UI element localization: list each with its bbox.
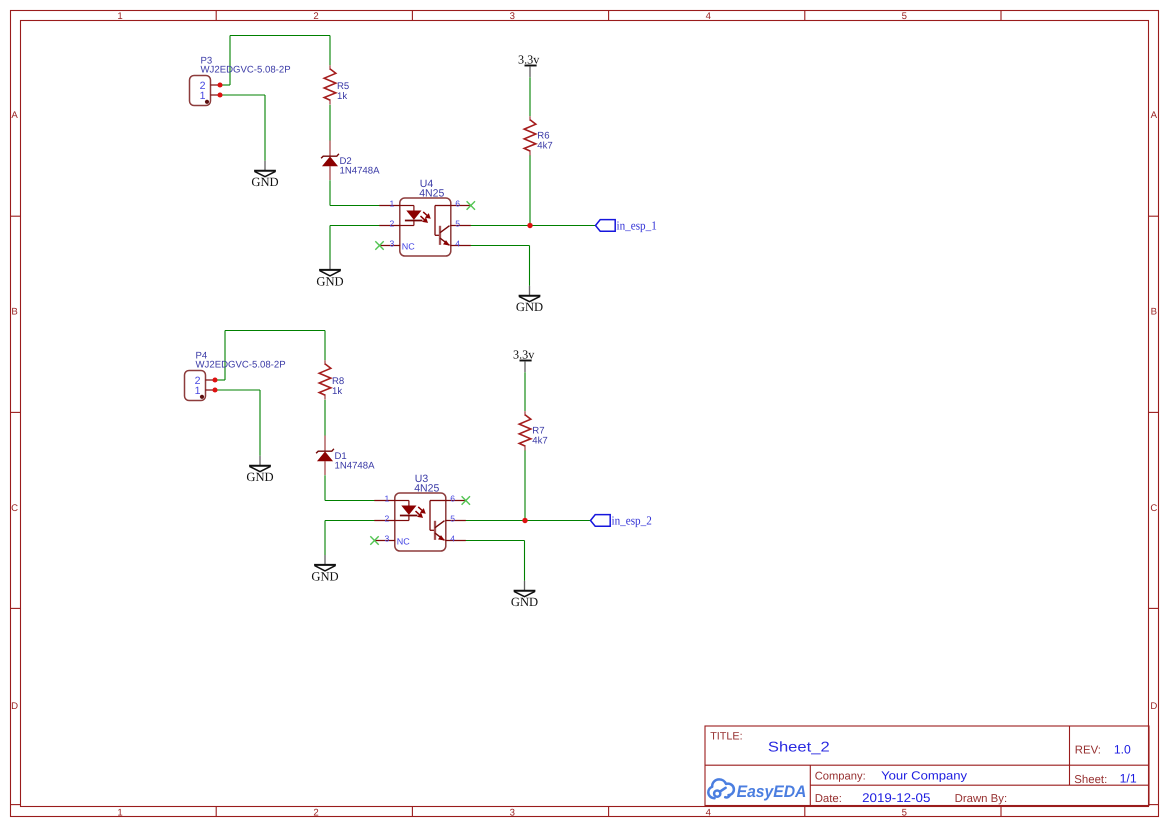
wire [329,36,331,66]
svg-text:GND: GND [246,470,273,484]
svg-text:Drawn By:: Drawn By: [955,793,1008,805]
svg-text:1N4748A: 1N4748A [335,461,376,472]
svg-text:1k: 1k [337,91,347,102]
svg-text:5: 5 [450,514,455,524]
P3 pin 1 [211,94,221,96]
wire [524,450,526,521]
wire [330,205,380,207]
ground (U4 pin 2) [316,260,343,288]
svg-text:4k7: 4k7 [537,140,552,151]
P3 pin-1 marker dot [205,100,209,104]
wire [471,245,530,247]
svg-text:GND: GND [316,274,343,288]
wire [466,540,525,542]
U4 pin 4 [450,245,471,247]
U3 pin 3 (NC) [374,540,395,542]
wire [325,520,375,522]
svg-text:TITLE:: TITLE: [710,730,742,742]
svg-text:1: 1 [385,494,390,504]
wire [220,94,265,96]
ground (P3 pin 1) [251,161,278,189]
svg-text:4: 4 [706,11,712,22]
wire [524,541,526,581]
U3 phototransistor [430,501,445,541]
P4 pin 1 [206,389,216,391]
optocoupler U3 (4N25) [374,473,466,551]
svg-text:3.3v: 3.3v [518,52,540,66]
wire [220,84,230,86]
resistor R7 [519,411,548,450]
resistor R6 [524,116,553,155]
P4 pin-1 marker dot [200,395,204,399]
wire [225,330,325,332]
wire junction [527,223,532,228]
svg-text:4k7: 4k7 [532,435,547,446]
svg-text:in_esp_1: in_esp_1 [617,219,657,233]
svg-text:WJ2EDGVC-5.08-2P: WJ2EDGVC-5.08-2P [201,65,291,76]
U4 pin 1 [379,205,400,207]
U4 light arrows [421,212,431,222]
zener diode D2 [321,141,380,181]
svg-text:Date:: Date: [815,793,842,805]
ground (P4 pin 1) [246,456,273,484]
wire [215,379,225,381]
P3 pin 2 [211,84,221,86]
resistor R8 [319,360,344,399]
svg-text:REV:: REV: [1075,744,1101,756]
wire junction [522,518,527,523]
U4 internal LED [400,206,422,226]
U3 pin 6 [445,500,466,502]
wire [329,105,331,141]
U4 pin 2 [379,225,400,227]
wire [324,521,326,556]
ground (U3 pin 4) [511,581,538,609]
svg-text:2019-12-05: 2019-12-05 [862,791,930,805]
wire [215,389,260,391]
wire [466,520,591,522]
no-connect X [467,201,475,209]
svg-text:A: A [11,110,18,121]
svg-text:4: 4 [706,807,712,818]
ground (U3 pin 2) [311,555,338,583]
svg-text:1.0: 1.0 [1114,742,1131,756]
P3 pin 2 dot [217,82,222,87]
connector P3 (WJ2EDGVC-5.08-2P) [190,56,291,106]
circuit block 2 [185,331,652,610]
svg-text:6: 6 [450,494,455,504]
no-connect X [375,241,383,249]
svg-text:WJ2EDGVC-5.08-2P: WJ2EDGVC-5.08-2P [196,360,286,371]
power flag 3.3v [518,52,540,77]
wire [529,155,531,226]
no-connect X [370,536,378,544]
ground (U4 pin 4) [516,286,543,314]
wire [330,225,380,227]
svg-text:Company:: Company: [815,770,866,782]
wire [324,331,326,361]
optocoupler U4 (4N25) [379,178,471,256]
wire [329,180,331,205]
svg-text:3: 3 [510,11,515,22]
net flag in_esp_2 [591,514,652,528]
wire [230,35,330,37]
svg-text:1: 1 [390,199,395,209]
svg-text:GND: GND [251,175,278,189]
svg-text:C: C [1150,503,1157,514]
U4 pin 3 (NC) [379,245,400,247]
net flag in_esp_1 [596,219,657,233]
wire [224,331,226,381]
svg-text:5: 5 [902,807,907,818]
zener diode D1 [316,436,375,476]
svg-text:2: 2 [313,807,318,818]
svg-text:GND: GND [511,595,538,609]
svg-text:Sheet_2: Sheet_2 [768,739,830,755]
svg-text:NC: NC [402,242,415,252]
svg-text:3: 3 [510,807,515,818]
svg-text:Your Company: Your Company [881,768,967,782]
U3 pin 2 [374,520,395,522]
svg-text:C: C [11,503,18,514]
svg-text:2: 2 [385,514,390,524]
P4 pin 2 [206,379,216,381]
svg-text:1/1: 1/1 [1120,772,1137,786]
wire [329,226,331,261]
svg-text:1: 1 [117,807,122,818]
svg-text:5: 5 [455,219,460,229]
U4 pin 6 [450,205,471,207]
svg-text:3: 3 [385,534,390,544]
svg-text:4: 4 [450,534,455,544]
svg-text:1k: 1k [332,386,342,397]
svg-text:GND: GND [311,569,338,583]
title block [705,726,1149,806]
P3 pin 1 dot [217,92,222,97]
P4 pin 2 dot [212,377,217,382]
svg-text:B: B [1151,307,1157,318]
svg-text:A: A [1151,110,1158,121]
circuit block 1 [190,36,657,315]
wire [325,500,375,502]
svg-text:1: 1 [195,385,201,397]
wire [529,246,531,286]
U3 pin 4 [445,540,466,542]
U4 phototransistor [435,206,450,246]
wire [471,225,596,227]
wire [524,372,526,411]
wire [259,390,261,456]
svg-text:3: 3 [390,239,395,249]
svg-text:D: D [1150,701,1157,712]
svg-text:GND: GND [516,300,543,314]
svg-text:5: 5 [902,11,907,22]
svg-text:1N4748A: 1N4748A [340,166,381,177]
svg-text:2: 2 [390,219,395,229]
wire [324,475,326,500]
svg-text:2: 2 [313,11,318,22]
connector P4 (WJ2EDGVC-5.08-2P) [185,351,286,401]
wire [264,95,266,161]
U3 light arrows [416,507,426,517]
svg-text:NC: NC [397,537,410,547]
EasyEDA logo [708,779,806,800]
U3 internal LED [395,501,417,521]
P4 pin 1 dot [212,387,217,392]
U3 pin 5 [445,520,466,522]
wire [229,36,231,86]
svg-text:D: D [11,701,18,712]
svg-text:1: 1 [200,90,206,102]
svg-text:4: 4 [455,239,460,249]
svg-text:1: 1 [117,11,122,22]
svg-text:EasyEDA: EasyEDA [737,782,807,801]
svg-text:3.3v: 3.3v [513,347,535,361]
svg-text:6: 6 [455,199,460,209]
no-connect X [462,496,470,504]
svg-text:Sheet:: Sheet: [1074,774,1107,786]
svg-text:B: B [11,307,17,318]
wire [324,400,326,436]
U4 pin 5 [450,225,471,227]
wire [529,77,531,116]
resistor R5 [324,65,349,104]
U3 pin 1 [374,500,395,502]
svg-text:in_esp_2: in_esp_2 [612,514,652,528]
power flag 3.3v [513,347,535,372]
